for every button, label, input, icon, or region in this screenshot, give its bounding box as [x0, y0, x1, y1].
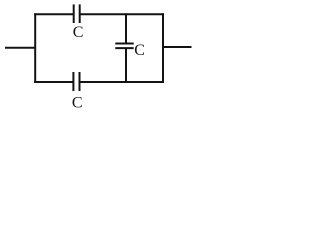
wire: left side of loop: [34, 13, 36, 83]
wire: middle branch lower lead: [125, 48, 127, 83]
svg-text:C: C: [134, 42, 145, 59]
wire: top rail right segment: [81, 13, 165, 15]
wire: top rail left segment: [34, 13, 73, 15]
capacitor C1 (top) plates: [74, 4, 80, 23]
svg-text:C: C: [72, 94, 83, 109]
wire: bottom rail right segment: [80, 81, 164, 83]
wire: right side of loop: [162, 13, 164, 83]
wire: right exit lead: [162, 46, 192, 48]
svg-text:C: C: [73, 24, 84, 41]
capacitor C2 (middle) plates: [115, 44, 133, 49]
capacitor C3 (bottom) plates: [73, 72, 79, 91]
wire: bottom rail left segment: [34, 81, 73, 83]
wire: left entry lead: [5, 47, 36, 49]
wire: middle branch upper lead: [125, 13, 127, 43]
